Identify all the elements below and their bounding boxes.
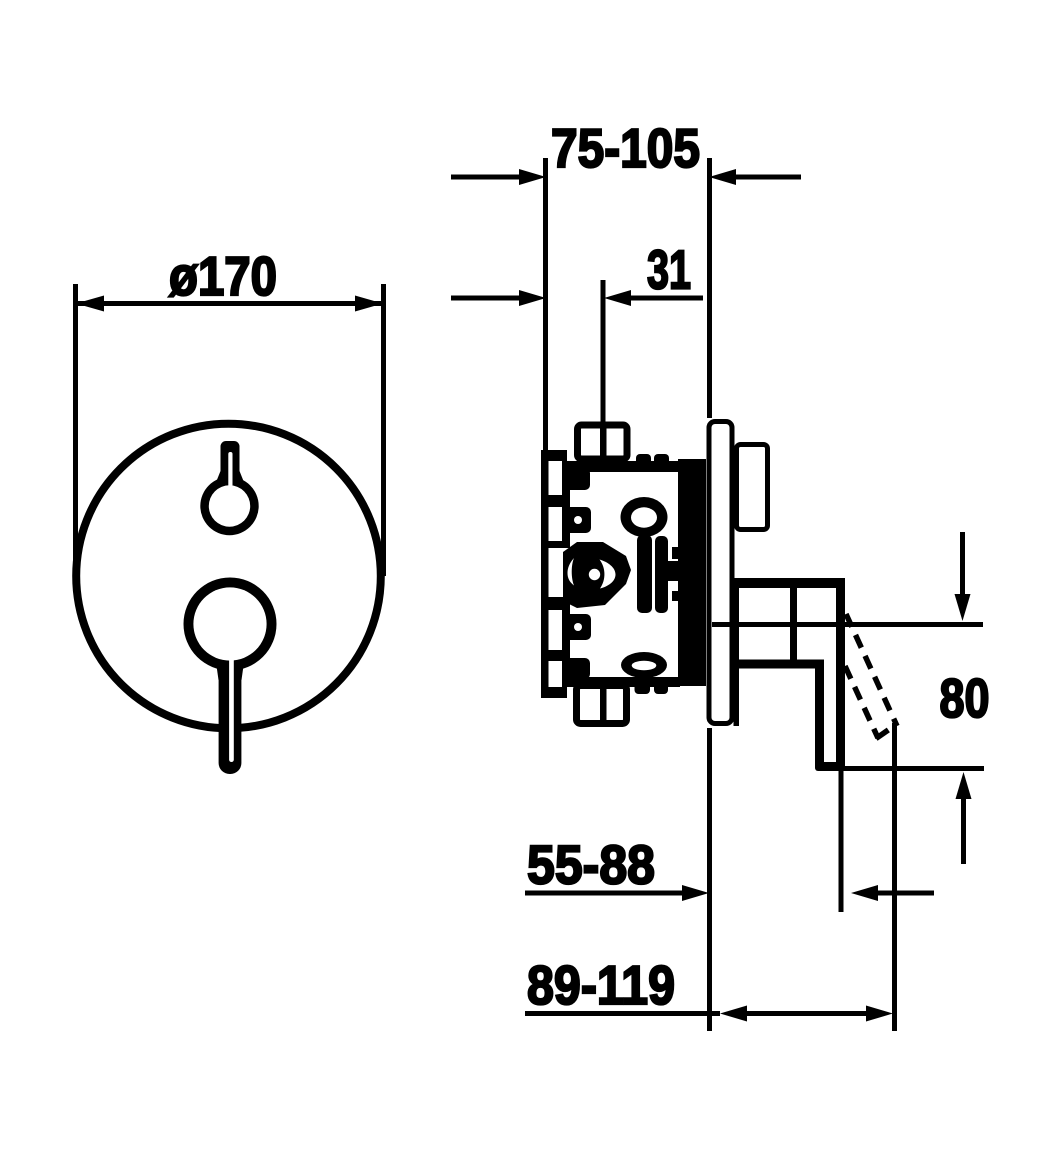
handle rotated position dashed edge A <box>846 614 897 726</box>
diverter knob (side) <box>737 445 768 530</box>
rail tab upper <box>562 468 585 487</box>
body bottom edge <box>565 677 680 687</box>
spindle tab upper <box>672 547 680 559</box>
dim 55-88 tail right <box>878 891 934 896</box>
dim 55-88 arrowhead left <box>682 885 709 901</box>
dim ø170 arrowhead right <box>355 296 383 312</box>
top supply port <box>578 425 628 459</box>
mixer handle neck flare <box>215 655 245 680</box>
screw boss upper <box>565 507 591 533</box>
handle rotated position dashed edge B <box>845 666 878 738</box>
dim ø170 extension line right <box>381 284 386 576</box>
body top edge <box>565 461 680 472</box>
screw shaft bar 2 <box>655 536 668 613</box>
screw boss upper hole (white) <box>574 516 582 524</box>
extension line x894 <box>892 723 897 1031</box>
screw shaft bar 1 <box>637 535 652 613</box>
diverter knob stem (front) <box>221 441 240 485</box>
dim ø170 dimension line <box>78 301 381 306</box>
bottom nub 1 <box>635 680 651 694</box>
trim plate circle (front) <box>76 424 381 729</box>
handle rotated position dashed tip <box>876 726 894 739</box>
svg-text:31: 31 <box>647 239 691 301</box>
dim 75-105 tail right <box>736 175 801 180</box>
screw eye ring <box>621 497 668 537</box>
dim 80 bottom arrow line <box>961 799 966 864</box>
extension line x709 lower <box>707 728 712 1031</box>
escutcheon plate (side) <box>709 422 732 724</box>
bottom outlet port <box>577 686 627 724</box>
dim 80 bottom arrowhead <box>956 772 972 799</box>
bottom outlet ring <box>621 652 667 678</box>
svg-text:80: 80 <box>940 667 990 729</box>
dim 55-88 arrowhead right <box>851 885 878 901</box>
mixer handle hub interior (white) <box>193 587 266 660</box>
extension line x546 <box>543 158 548 451</box>
dim 89-119 line middle <box>747 1011 866 1016</box>
cartridge housing <box>563 542 631 608</box>
mixer handle lever slot (white) <box>229 650 234 762</box>
screw eye ring hole (white) <box>631 507 657 527</box>
mounting rail bottom cap <box>541 687 567 698</box>
handle lever bottom cap <box>815 762 845 771</box>
cartridge pivot hole (white) <box>589 569 600 580</box>
mixer handle lever (front) <box>219 630 242 774</box>
dim 31 tail left <box>451 296 520 301</box>
dim 80 bottom line <box>824 766 984 771</box>
screw boss lower <box>565 614 591 640</box>
spindle block middle <box>666 561 680 581</box>
dim 75-105 arrowhead right <box>709 169 736 185</box>
dim 31 arrowhead left <box>519 290 546 306</box>
dim 89-119 arrowhead right <box>866 1006 893 1022</box>
dim ø170 arrowhead left <box>76 296 104 312</box>
mounting rail rung thin <box>548 541 570 548</box>
svg-text:ø170: ø170 <box>169 245 277 307</box>
dim 80 top arrowhead <box>955 594 971 621</box>
handle lever outer edge <box>836 578 845 768</box>
mounting rail rung 1 <box>548 495 570 507</box>
diverter knob stem slot (white) <box>228 452 232 496</box>
mounting rail inner edge upper <box>562 461 570 545</box>
mixer handle hub (front) <box>184 578 277 671</box>
dim 89-119 arrowhead left <box>720 1006 747 1022</box>
diverter knob circle interior (white) <box>209 485 250 526</box>
rail tab lower <box>562 658 590 679</box>
dim 75-105 tail left <box>451 175 520 180</box>
top nub 1 <box>636 454 651 472</box>
svg-text:55-88: 55-88 <box>527 834 655 896</box>
top nub 2 <box>654 454 669 472</box>
cartridge left clearance (white) <box>568 558 575 586</box>
bottom outlet ring hole (white) <box>632 661 657 671</box>
handle base bottom line <box>739 660 824 669</box>
spindle tab lower <box>672 591 680 601</box>
dim 55-88 line <box>525 891 683 896</box>
diverter knob circle (front) <box>200 477 258 535</box>
mounting rail inner edge lower <box>562 600 570 687</box>
extension line x603 <box>601 280 606 460</box>
diverter knob stem flare <box>217 471 244 481</box>
wall section slab <box>678 459 706 686</box>
dim 75-105 arrowhead left <box>519 169 546 185</box>
handle base top cap <box>730 578 844 588</box>
mounting rail rung 2 <box>548 597 570 610</box>
extension line x709 upper <box>707 158 712 418</box>
bottom outlet port divider <box>600 684 607 725</box>
extension line x841 <box>839 769 844 912</box>
dim 80 top line <box>712 622 983 627</box>
mounting rail rung 3 <box>548 650 570 661</box>
dim 80 top arrow line <box>960 532 965 594</box>
handle lever inner edge <box>815 665 824 765</box>
dim 31 arrowhead right <box>604 290 631 306</box>
svg-text:89-119: 89-119 <box>527 954 675 1016</box>
dim 89-119 line left <box>525 1011 720 1016</box>
dim ø170 extension line left <box>73 284 78 576</box>
body top-left corner boss <box>565 468 590 490</box>
dim 31 tail right <box>631 296 703 301</box>
screw boss lower hole (white) <box>574 623 582 631</box>
bottom nub 2 <box>654 680 668 694</box>
mounting rail top cap <box>541 450 567 461</box>
handle base divider <box>790 582 797 666</box>
svg-text:75-105: 75-105 <box>551 117 700 179</box>
top supply port divider <box>600 424 607 462</box>
cartridge right clearance (white) <box>600 560 616 589</box>
mounting rail left edge <box>541 450 549 698</box>
plate right edge band <box>734 578 740 726</box>
